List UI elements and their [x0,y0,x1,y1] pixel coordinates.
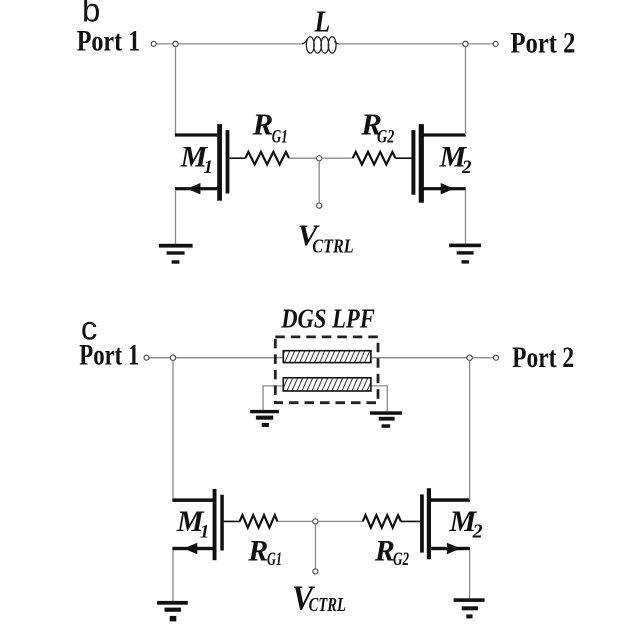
ground (fig b left) [159,244,193,264]
wire: M2 gate lead (fig b) [395,157,411,159]
label M1 (fig c) [176,505,210,543]
Port 2 label (fig b) [511,26,576,59]
wire: node to RG2 (fig c) [318,520,363,522]
ground (fig b right) [449,244,481,264]
svg-text:G1: G1 [272,126,288,147]
svg-text:G2: G2 [393,549,409,570]
node: port 1 junction (fig b) [173,41,178,46]
wire: VCTRL stub (fig c) [314,524,316,569]
svg-text:DGS LPF: DGS LPF [280,304,374,334]
wire: M2 gate lead (fig c) [401,520,420,522]
ground (fig c right) [454,598,485,618]
wire: M1 source to ground (fig b) [175,190,177,244]
label RG1 (fig c) [247,535,282,571]
label RG2 (fig b) [360,107,394,148]
transistor M1 (fig b) [175,124,230,201]
wire: right drain riser (fig c) [469,360,471,500]
Port 1 label (fig b) [77,25,141,58]
label b [82,0,100,29]
wire: DGS right ground stub [371,386,387,411]
label M1 (fig b) [180,141,214,179]
wire: node to RG2 [322,157,353,159]
wire: M1 gate lead (fig c) [224,520,240,522]
svg-text:R: R [252,107,274,142]
ground (fig c left) [157,601,188,622]
wire: left drain riser (fig b) [175,47,177,135]
label DGS LPF [280,304,374,334]
resistor RG2 (fig b) [353,152,396,165]
transistor M1 (fig c) [172,489,223,560]
svg-text:1: 1 [200,522,210,543]
svg-text:2: 2 [472,521,483,543]
wire: RG1 to VCTRL node [289,157,317,159]
label RG1 (fig b) [252,107,288,148]
terminal VCTRL (fig b) [317,203,322,208]
svg-text:2: 2 [461,157,472,178]
transistor M2 (fig b) [411,124,465,203]
DGS microstrip upper (hatched) [283,351,371,363]
node: port 1 junction (fig c) [170,355,175,360]
label M2 (fig c) [449,505,483,543]
svg-text:Port 1: Port 1 [77,25,141,58]
port 2 terminal (fig b) [493,41,498,46]
svg-text:Port 2: Port 2 [511,26,576,59]
label c [81,310,98,347]
svg-text:G2: G2 [377,126,395,147]
Port 2 label (fig c) [512,341,574,374]
inductor L [302,37,339,53]
svg-text:Port 2: Port 2 [512,341,574,374]
wire: M1 source to ground (fig c) [172,550,174,601]
port 1 terminal (fig b) [151,41,156,46]
Port 1 label (fig c) [79,339,139,372]
wire: left drain riser (fig c) [172,360,174,500]
wire: VCTRL stub (fig b) [318,161,320,203]
svg-text:CTRL: CTRL [309,595,346,616]
resistor RG2 (fig c) [363,515,401,528]
label RG2 (fig c) [374,535,409,571]
svg-text:L: L [314,3,331,38]
label L [314,3,331,38]
node: port 2 junction (fig b) [463,41,468,46]
svg-text:G1: G1 [267,549,282,570]
wire: RG1 to node (fig c) [277,520,313,522]
svg-text:CTRL: CTRL [312,235,353,257]
terminal VCTRL (fig c) [313,569,318,574]
ground (DGS left) [250,410,279,427]
port 2 terminal (fig c) [494,355,499,360]
label M2 (fig b) [439,141,473,178]
DGS LPF dashed box [275,337,378,403]
node: VCTRL junction (fig b) [317,156,322,161]
wire: right drain riser (fig b) [465,47,467,135]
resistor RG1 (fig c) [240,515,278,528]
wire: main rail (fig c) [149,357,494,359]
label VCTRL (fig c) [292,579,346,618]
transistor M2 (fig c) [420,488,470,559]
label VCTRL (fig b) [298,219,354,257]
wire: M2 source to ground (fig b) [465,190,467,243]
wire: M1 gate lead [229,157,245,159]
node: VCTRL junction (fig c) [313,519,318,524]
svg-text:Port 1: Port 1 [79,339,139,372]
port 1 terminal (fig c) [144,355,149,360]
svg-text:1: 1 [204,157,214,178]
svg-text:R: R [374,535,395,568]
wire: M2 source to ground (fig c) [469,550,471,598]
wire: DGS left ground stub [263,386,283,410]
svg-text:R: R [247,535,268,568]
ground (DGS right) [370,411,402,428]
DGS microstrip lower (hatched) [283,378,371,391]
node: port 2 junction (fig c) [467,355,472,360]
resistor RG1 (fig b) [245,152,289,165]
wire: top rail (fig b) [156,43,493,45]
